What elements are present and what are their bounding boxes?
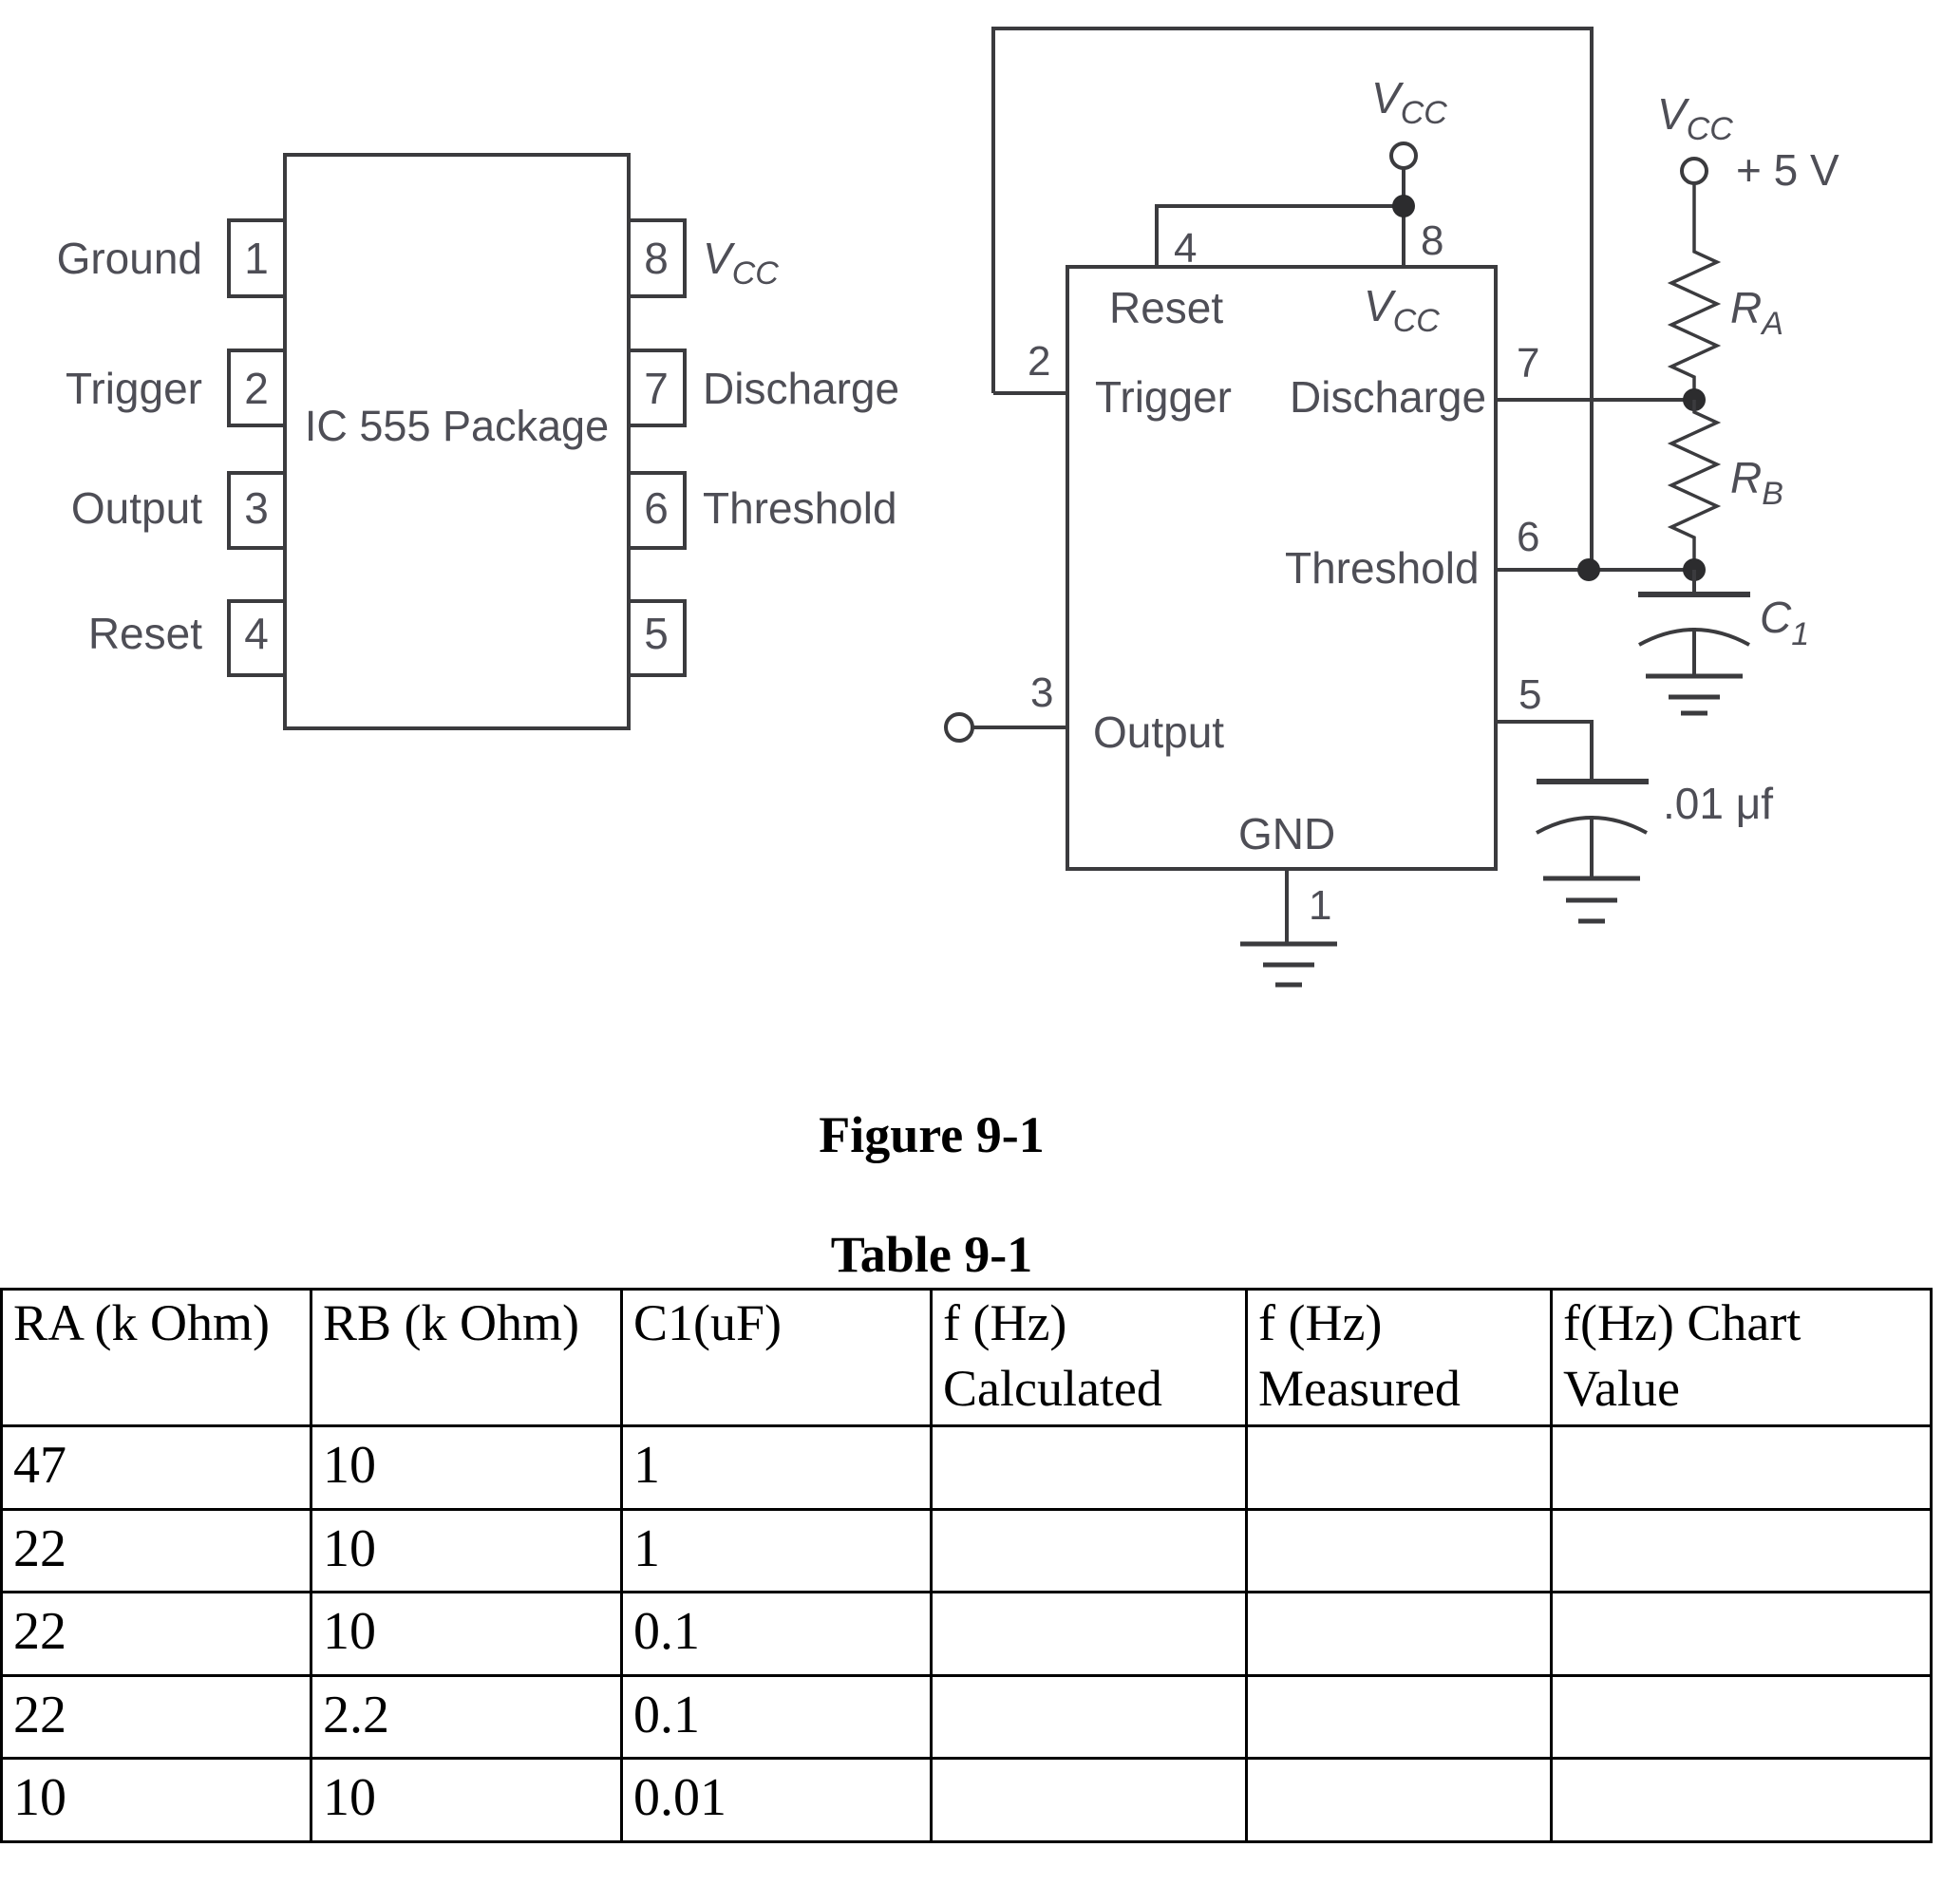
pin 6 box xyxy=(629,473,685,548)
Vcc terminal circle xyxy=(1391,143,1416,168)
svg-text:IC 555 Package: IC 555 Package xyxy=(305,402,609,450)
svg-text:Reset: Reset xyxy=(88,609,202,658)
wire pin 7 discharge to RA RB node xyxy=(1496,398,1692,402)
output terminal circle xyxy=(946,714,972,741)
pin 4 box xyxy=(229,601,285,675)
svg-text:C1: C1 xyxy=(1760,593,1809,652)
svg-text:1: 1 xyxy=(1309,882,1331,929)
svg-text:6: 6 xyxy=(1517,514,1539,560)
svg-text:+ 5 V: + 5 V xyxy=(1736,145,1839,195)
svg-text:5: 5 xyxy=(1519,671,1541,718)
svg-text:8: 8 xyxy=(1421,217,1443,264)
svg-text:VCC: VCC xyxy=(1371,73,1447,131)
svg-text:.01 μf: .01 μf xyxy=(1663,779,1773,828)
svg-text:Discharge: Discharge xyxy=(703,364,899,413)
wire outer feedback loop from pin 2 to pin 6 line xyxy=(993,28,1592,570)
svg-text:6: 6 xyxy=(644,483,669,533)
wire pin 6 threshold to C1 xyxy=(1496,568,1694,572)
node Vcc junction dot xyxy=(1392,195,1415,217)
op-amp U1 555 timer body xyxy=(1067,267,1496,869)
wire pin 8 to Vcc node xyxy=(1402,168,1405,267)
wire pin 1 gnd xyxy=(1285,869,1289,944)
caption Table 9-1 xyxy=(0,1229,1863,1280)
svg-text:2: 2 xyxy=(244,364,269,413)
svg-text:VCC: VCC xyxy=(1657,89,1733,147)
resistor RA xyxy=(1671,183,1717,400)
svg-text:7: 7 xyxy=(1517,340,1539,386)
svg-text:RA: RA xyxy=(1730,283,1783,342)
pin 8 box xyxy=(629,220,685,296)
svg-text:Threshold: Threshold xyxy=(703,483,897,533)
resistor RB xyxy=(1671,400,1717,570)
IC 555 package body xyxy=(285,155,629,728)
table 9-1 xyxy=(0,1288,1933,1843)
svg-text:VCC: VCC xyxy=(703,234,779,292)
wire pin 2 to chip xyxy=(993,391,1067,395)
svg-text:2: 2 xyxy=(1028,338,1050,385)
svg-text:GND: GND xyxy=(1238,809,1335,858)
svg-text:Output: Output xyxy=(71,483,202,533)
ground under bypass cap xyxy=(1543,878,1640,921)
svg-text:RB: RB xyxy=(1730,453,1783,512)
pin 3 box xyxy=(229,473,285,548)
node discharge RA RB junction dot xyxy=(1683,388,1706,411)
svg-text:Threshold: Threshold xyxy=(1285,543,1480,593)
svg-text:1: 1 xyxy=(244,234,269,283)
svg-text:Discharge: Discharge xyxy=(1290,372,1486,422)
caption Figure 9-1 xyxy=(0,1109,1863,1160)
svg-text:Output: Output xyxy=(1093,707,1224,757)
capacitor C1 xyxy=(1638,570,1750,676)
svg-text:Trigger: Trigger xyxy=(66,364,202,413)
node threshold loop junction dot xyxy=(1577,558,1600,581)
node threshold C1 junction dot xyxy=(1683,558,1706,581)
pin 5 box xyxy=(629,601,685,675)
pin 2 box xyxy=(229,350,285,425)
pin 1 box xyxy=(229,220,285,296)
svg-text:4: 4 xyxy=(1174,225,1197,272)
svg-text:5: 5 xyxy=(644,609,669,658)
wire pin 5 to bypass cap xyxy=(1496,722,1592,779)
svg-text:3: 3 xyxy=(244,483,269,533)
wire output pin 3 xyxy=(973,726,1067,729)
ground pin 1 xyxy=(1240,944,1337,985)
svg-text:Trigger: Trigger xyxy=(1095,372,1232,422)
svg-text:Reset: Reset xyxy=(1109,283,1223,332)
Vcc terminal circle right xyxy=(1682,159,1707,183)
wire pin 4 reset to Vcc node xyxy=(1157,206,1404,267)
svg-text:Ground: Ground xyxy=(57,234,202,283)
capacitor .01 uf xyxy=(1537,782,1649,878)
svg-text:8: 8 xyxy=(644,234,669,283)
ground under C1 xyxy=(1646,676,1743,713)
pin 7 box xyxy=(629,350,685,425)
svg-text:4: 4 xyxy=(244,609,269,658)
svg-text:3: 3 xyxy=(1030,669,1053,716)
svg-text:7: 7 xyxy=(644,364,669,413)
